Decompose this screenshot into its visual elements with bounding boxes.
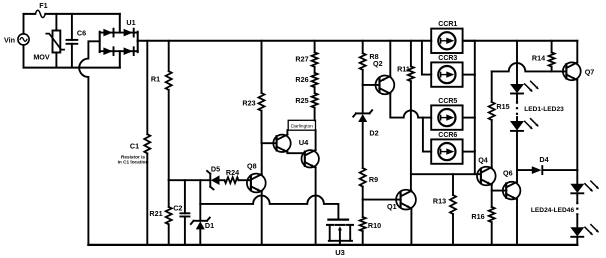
wire Vin top lead <box>23 14 25 34</box>
wire Q8 collector lead <box>261 143 263 174</box>
resistor R14 <box>532 52 555 66</box>
svg-text:R13: R13 <box>433 197 446 206</box>
transistor Q6 <box>503 169 521 200</box>
zener diode D5 <box>207 164 220 189</box>
wire C1 bottom lead <box>146 153 148 245</box>
wire bridge negative lead with hop over ac neutral <box>79 41 99 245</box>
wire bridge positive lead <box>138 40 432 43</box>
wire dc rail right of CCR1 <box>463 40 577 42</box>
resistor R16 <box>471 207 494 222</box>
wire node to D5 <box>169 179 211 181</box>
wire Q2 collector with hop over R11 <box>390 94 431 118</box>
resistor R1 <box>151 71 172 90</box>
current regulator CCR3 <box>431 55 462 87</box>
svg-text:Q7: Q7 <box>585 67 595 76</box>
svg-text:Q4: Q4 <box>478 156 488 165</box>
wire Q2 base <box>363 84 380 86</box>
wire LED2 bottom lead <box>516 131 518 170</box>
svg-text:D2: D2 <box>369 129 378 138</box>
wire LED1 top lead <box>516 41 518 84</box>
wire MOV bottom lead <box>55 53 57 68</box>
wire R23 top lead <box>261 41 263 93</box>
led LED1 <box>510 81 539 93</box>
svg-text:Q1: Q1 <box>387 202 397 211</box>
svg-text:U4: U4 <box>299 138 309 147</box>
wire R15 to Q7 base with hop over LED string <box>492 63 566 71</box>
resistor R11 <box>397 64 414 81</box>
dotted continuation LED24-LED46 <box>531 202 577 215</box>
wire LED24 to dots <box>576 193 578 201</box>
wire junction to LED24 <box>576 170 578 184</box>
led LED25 <box>570 225 599 237</box>
wire R14 top lead <box>551 41 553 53</box>
svg-text:Q8: Q8 <box>247 161 257 170</box>
wire D1 top lead <box>199 180 201 221</box>
wire U4 second collector lead <box>315 130 317 150</box>
wire Q4 emitter lead <box>491 185 493 207</box>
wire R1 bottom lead <box>168 90 170 180</box>
wire bridge top ac feed <box>119 14 121 33</box>
wire node to D4 <box>517 169 532 171</box>
svg-text:F1: F1 <box>39 1 47 10</box>
svg-text:Q2: Q2 <box>373 59 383 68</box>
wire R27 to R26 <box>314 67 316 73</box>
wire R24 to Q8 base <box>239 179 251 181</box>
wire D4 to LED24 string <box>543 169 577 171</box>
wire U4 first emitter to second base <box>287 152 304 153</box>
wire R11 top lead <box>410 41 412 67</box>
varistor MOV <box>33 31 64 62</box>
wire Vin bottom lead <box>23 45 25 68</box>
svg-text:C1: C1 <box>130 142 139 151</box>
wire Q7 emitter lead <box>576 80 578 170</box>
svg-text:Vin: Vin <box>4 35 15 44</box>
wire R15 top lead <box>491 71 493 102</box>
zener diode D1 <box>191 218 214 230</box>
wire LED1 to dots <box>516 94 518 102</box>
wire MOV top lead <box>55 14 57 31</box>
resistor R23 <box>242 93 264 111</box>
resistor R27 <box>295 52 317 67</box>
wire R8 top lead <box>362 41 364 53</box>
svg-text:C2: C2 <box>173 203 182 212</box>
transistor Q2 (pnp) <box>373 59 394 94</box>
wire gate drive with hops over Q8 and U4 emitters <box>200 196 338 219</box>
wire Q7 collector lead <box>576 41 578 63</box>
resistor R21 <box>149 207 171 224</box>
wire dots to LED25 <box>576 215 578 227</box>
transistor Q4 <box>477 156 496 186</box>
svg-text:U1: U1 <box>126 18 135 27</box>
wire C2 bottom lead <box>184 217 186 245</box>
capacitor C6 <box>67 29 87 44</box>
wire top input from fuse to bridge <box>45 13 120 15</box>
resistor R15 <box>489 102 510 120</box>
wire collector node to Q4 base <box>411 173 480 175</box>
svg-text:U3: U3 <box>335 248 345 257</box>
svg-text:D1: D1 <box>205 221 214 230</box>
wire node to R10 <box>362 200 364 217</box>
wire R11 to Q1 collector <box>410 81 413 191</box>
resistor C1 (resistor in C1 location) <box>118 134 151 164</box>
svg-text:CCR6: CCR6 <box>438 132 457 139</box>
resistor R10 <box>360 217 381 231</box>
wire LED25 bottom lead <box>576 237 578 245</box>
wire Q2 emitter to rail <box>389 41 391 76</box>
wire U4 first collector lead <box>286 130 288 134</box>
diode D4 <box>532 155 549 174</box>
wire R9 to node <box>362 187 364 200</box>
svg-text:D5: D5 <box>211 164 220 173</box>
capacitor C2 <box>173 203 189 216</box>
svg-text:LED1-LED23: LED1-LED23 <box>524 106 564 113</box>
svg-text:R10: R10 <box>368 221 381 230</box>
fuse F1 <box>35 1 47 17</box>
svg-text:in C1 location: in C1 location <box>118 160 149 165</box>
wire C6 bottom lead <box>71 44 73 68</box>
bridge rectifier U1 <box>100 18 138 55</box>
wire CCR6 feed <box>423 118 431 152</box>
wire Q1 emitter lead <box>410 208 412 245</box>
wire C6 top lead <box>71 14 73 40</box>
svg-text:R23: R23 <box>242 99 255 108</box>
wire R27 top lead <box>314 41 316 53</box>
wire R25 to darlington box <box>314 108 316 121</box>
wire R21 top lead <box>168 180 170 207</box>
wire top input from Vin to fuse <box>24 13 36 15</box>
svg-text:R21: R21 <box>149 209 162 218</box>
svg-text:R1: R1 <box>151 74 160 83</box>
svg-text:MOV: MOV <box>33 53 50 62</box>
wire C2 top lead <box>184 180 186 213</box>
resistor R25 <box>295 93 317 108</box>
svg-text:R25: R25 <box>295 96 308 105</box>
svg-text:R11: R11 <box>397 64 410 73</box>
wire bridge bottom ac feed <box>119 51 121 67</box>
wire D2 to R9 <box>362 122 364 168</box>
wire R26 to R25 <box>314 87 316 93</box>
wire R21 bottom lead <box>168 224 170 245</box>
svg-text:R26: R26 <box>295 75 308 84</box>
current regulator CCR6 <box>431 132 462 164</box>
wire Q6 base <box>492 190 507 192</box>
wire D1 bottom lead <box>199 229 201 245</box>
transistor Q8 <box>247 161 266 192</box>
svg-text:R27: R27 <box>295 55 308 64</box>
led LED2 <box>510 119 539 131</box>
svg-text:CCR3: CCR3 <box>438 55 457 62</box>
svg-text:Q6: Q6 <box>503 169 513 178</box>
wire R13 bottom lead <box>452 214 454 245</box>
wire U4 base feed <box>262 142 277 144</box>
resistor R24 <box>225 168 240 183</box>
wire Q4 collector lead <box>491 120 493 167</box>
svg-text:CCR5: CCR5 <box>438 98 457 105</box>
svg-text:R16: R16 <box>471 212 484 221</box>
wire Q8 emitter lead <box>261 192 263 245</box>
transistor Q7 <box>563 62 594 80</box>
dotted continuation LED1-LED23 <box>517 102 564 118</box>
wire R23 bottom lead <box>261 111 263 143</box>
svg-text:D4: D4 <box>539 155 548 164</box>
resistor R13 <box>433 195 456 214</box>
resistor R9 <box>360 168 378 187</box>
svg-text:R14: R14 <box>532 53 545 62</box>
current regulator CCR5 <box>431 98 462 130</box>
svg-text:CCR1: CCR1 <box>438 21 457 28</box>
svg-text:LED24-LED46: LED24-LED46 <box>531 207 575 214</box>
mosfet U3 <box>327 220 353 257</box>
darlington label box <box>288 120 315 130</box>
svg-text:R9: R9 <box>369 175 378 184</box>
wire ground rail <box>88 244 577 246</box>
wire D5 to R24 <box>220 179 225 181</box>
wire Q6 collector lead <box>516 170 518 182</box>
current regulator CCR1 <box>431 21 462 53</box>
wire U4 second emitter lead <box>315 168 317 245</box>
wire R8 to D2 <box>362 70 364 114</box>
wire CCR3 right lead <box>463 74 475 76</box>
wire dots to LED2 <box>516 117 518 121</box>
wire R13 top lead <box>452 174 454 195</box>
wire Q1 base <box>363 199 401 201</box>
svg-text:Darlington: Darlington <box>291 124 313 130</box>
wire C1 top lead <box>146 41 148 134</box>
zener diode D2 <box>353 110 378 137</box>
wire R16 bottom lead <box>491 222 493 245</box>
transistor U4 second stage <box>302 150 319 168</box>
wire CCR6 right lead <box>463 151 475 153</box>
wire R1 top lead <box>168 41 170 71</box>
led LED24 <box>570 181 599 193</box>
wire R14 bottom lead <box>551 67 553 72</box>
wire Q6 emitter lead <box>516 199 518 245</box>
ac source Vin <box>4 34 29 45</box>
transistor Q1 <box>387 190 416 211</box>
transistor U4 first stage <box>273 135 309 153</box>
wire ac neutral bottom <box>24 67 120 69</box>
resistor R26 <box>295 73 317 87</box>
svg-text:Resistor is: Resistor is <box>121 154 145 159</box>
svg-text:R15: R15 <box>496 102 509 111</box>
svg-text:R24: R24 <box>226 168 239 177</box>
wire CCR5 right lead <box>463 117 475 119</box>
resistor R8 <box>360 52 379 70</box>
wire CCR1 right lead <box>463 40 475 42</box>
svg-text:C6: C6 <box>77 29 86 38</box>
wire CCR3 left feed <box>422 41 431 75</box>
wire R10 bottom lead <box>362 231 364 245</box>
wire CCR output bus <box>474 41 476 174</box>
